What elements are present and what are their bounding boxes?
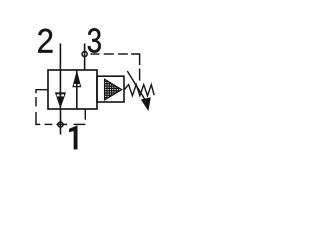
adjustment arrowhead [141,97,151,111]
wire right internal path [76,70,78,109]
wire port 2 line [59,44,61,71]
port label 3 [88,28,101,52]
port 3 circle [82,51,87,56]
wire left internal path [59,70,61,108]
wire port 1 line [60,109,62,135]
flow arrow up triangle [72,70,81,87]
pilot line dashed from port 3 [91,54,140,81]
wire port 3 line [84,43,86,70]
port 1 circle [58,122,63,127]
drain line dashed left elbow [36,90,85,125]
valve body envelope [48,70,97,109]
solenoid hatched triangle [105,78,122,101]
port label 1 [69,126,77,150]
spring [124,85,154,96]
port label 2 [38,29,52,53]
proportional solenoid box [97,76,124,102]
adjustment arrow diagonal [127,71,147,103]
valve poppet down triangle [55,92,66,108]
